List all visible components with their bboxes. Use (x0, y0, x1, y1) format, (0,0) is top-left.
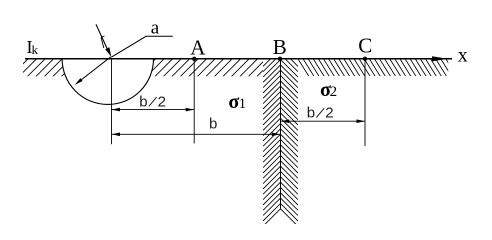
svg-text:a: a (151, 17, 160, 38)
svg-text:b: b (307, 105, 315, 122)
svg-text:x: x (458, 45, 468, 67)
svg-text:2: 2 (330, 84, 338, 100)
svg-text:b: b (209, 115, 217, 132)
svg-text:2: 2 (325, 105, 333, 122)
svg-text:k: k (32, 42, 39, 57)
svg-text:1: 1 (239, 96, 247, 112)
svg-text:A: A (190, 35, 206, 59)
svg-text:C: C (358, 33, 372, 57)
svg-text:2: 2 (158, 93, 166, 110)
svg-text:b: b (139, 93, 147, 110)
svg-text:B: B (273, 35, 287, 59)
